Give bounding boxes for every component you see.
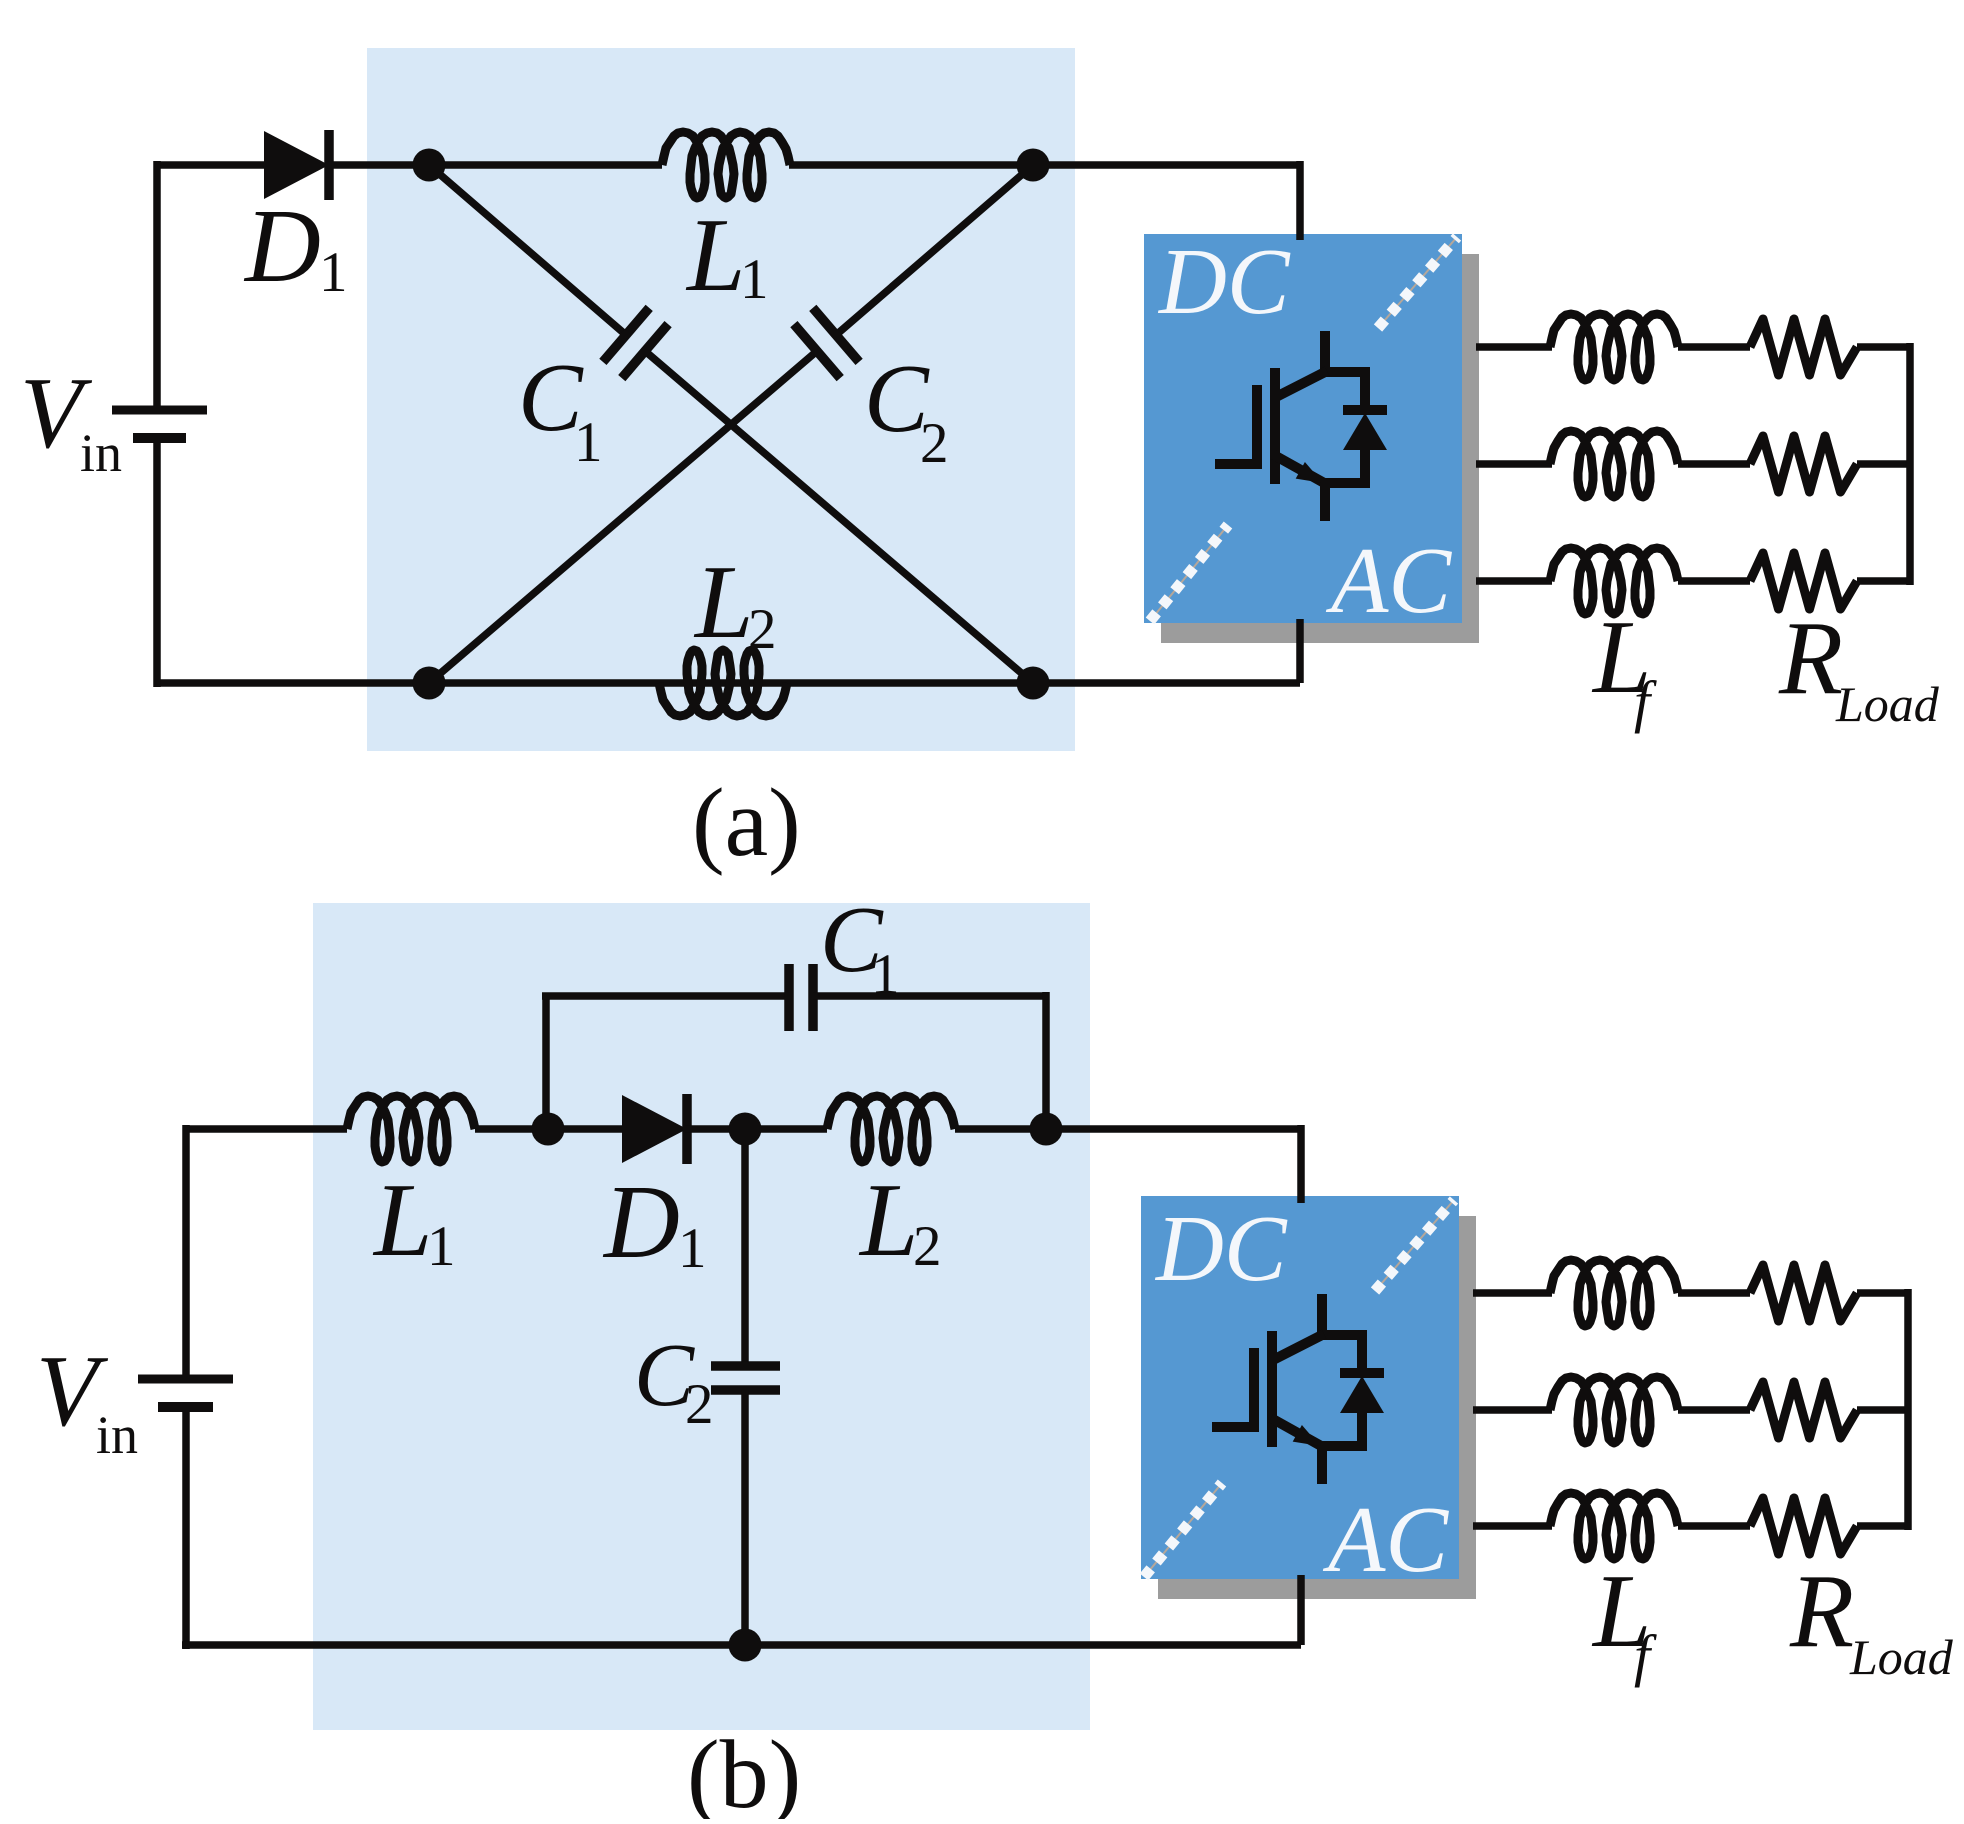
wire: L1 to diode (b) <box>475 1125 626 1133</box>
wire: C2 branch lower (b) <box>741 1390 749 1645</box>
inductor L1 (b) <box>347 1096 475 1162</box>
load resistor RLoad middle phase (a) <box>1750 436 1857 492</box>
node H junction dot (b) <box>729 1629 762 1662</box>
svg-text:DC: DC <box>1157 230 1291 334</box>
svg-text:L: L <box>693 543 753 660</box>
svg-text:(a): (a) <box>692 769 801 877</box>
wire: left rail lower (a) <box>153 442 161 687</box>
dashed corner line top-right (b) <box>1375 1200 1454 1291</box>
wire: middle phase line (a) <box>1476 460 1552 468</box>
wire: top rail (b) Vin to L1 <box>186 1125 347 1133</box>
capacitor C2 plates (a) <box>813 308 859 362</box>
wire: left rail upper (b) <box>182 1125 190 1375</box>
wire: C2 branch upper (b) <box>741 1129 749 1366</box>
node C junction dot (a) <box>413 667 446 700</box>
svg-text:(b): (b) <box>687 1721 801 1819</box>
inductor L2 (b) <box>827 1096 955 1162</box>
load resistor RLoad middle phase (b) <box>1750 1382 1857 1438</box>
svg-text:DC: DC <box>1154 1197 1288 1301</box>
wire: bottom phase inductor to resistor (b) <box>1678 1522 1750 1530</box>
svg-text:2: 2 <box>920 412 949 475</box>
wire: bottom phase line (b) <box>1473 1522 1552 1530</box>
filter inductor Lf bottom phase (b) <box>1550 1493 1678 1559</box>
filter inductor Lf bottom phase (a) <box>1550 548 1678 614</box>
wire: bottom phase inductor to resistor (a) <box>1678 577 1750 585</box>
svg-text:L: L <box>372 1161 432 1278</box>
filter inductor Lf top phase (a) <box>1550 314 1678 380</box>
inductor L1 (a) <box>662 132 790 198</box>
svg-text:R: R <box>1789 1552 1854 1669</box>
wire: diode to node A (a) <box>327 161 662 169</box>
wire: diode to L2 (b) <box>685 1125 827 1133</box>
svg-text:1: 1 <box>427 1215 456 1278</box>
node A junction dot (a) <box>413 149 446 182</box>
wire: left rail lower (b) <box>182 1411 190 1649</box>
dashed corner line top-right (a) <box>1378 237 1457 328</box>
wire: inverter bottom drop (b) <box>1297 1575 1305 1645</box>
load resistor RLoad top phase (a) <box>1750 319 1857 375</box>
wire: top phase inductor to resistor (a) <box>1678 343 1750 351</box>
wire: middle phase line (b) <box>1473 1406 1552 1414</box>
wire: right load bus (b) <box>1904 1289 1912 1530</box>
wire: middle phase resistor to bus (a) <box>1857 460 1913 468</box>
filter inductor Lf middle phase (b) <box>1550 1377 1678 1443</box>
wire: right drop into inverter top (a) <box>1296 161 1304 240</box>
svg-text:Load: Load <box>1849 1629 1954 1685</box>
capacitor C1 plates (b) <box>784 964 794 1031</box>
voltage source Vin (a) short plate <box>133 433 186 443</box>
wire: middle phase resistor to bus (b) <box>1857 1406 1911 1414</box>
wire: C1 top rail left (b) <box>542 992 789 1000</box>
dashed corner line bottom-left (b) <box>1144 1483 1222 1577</box>
voltage source Vin (a) long plate <box>112 406 207 415</box>
wire: inverter bottom drop (a) <box>1296 619 1304 683</box>
impedance-network highlight panel (b) <box>313 903 1090 1730</box>
wire: bottom phase resistor to bus (b) <box>1857 1522 1911 1530</box>
wire: bottom rail (b) <box>182 1641 1301 1649</box>
filter inductor Lf middle phase (a) <box>1550 431 1678 497</box>
wire: bottom rail (a) <box>157 679 1300 687</box>
wire: C1 branch left riser (b) <box>542 996 550 1129</box>
svg-text:Load: Load <box>1835 676 1940 732</box>
IGBT with anti-parallel diode inside inverter (a) <box>1215 331 1387 521</box>
inverter block U2 DC/AC (b) <box>1141 1196 1459 1579</box>
wire: top phase line (b) <box>1473 1289 1552 1297</box>
svg-text:R: R <box>1778 599 1843 716</box>
node D junction dot (a) <box>1017 667 1050 700</box>
svg-text:1: 1 <box>574 411 603 474</box>
wire: right load bus (a) <box>1906 343 1914 585</box>
wire: C1 branch right riser (b) <box>1042 992 1050 1129</box>
node G junction dot (b) <box>1030 1113 1063 1146</box>
inductor L2 (a) <box>659 650 787 716</box>
svg-text:AC: AC <box>1322 1488 1449 1592</box>
wire: drop into inverter top (b) <box>1297 1125 1305 1203</box>
capacitor C1 plates (a) <box>603 308 649 362</box>
wire: L1 to node B and right to inverter (a) <box>789 161 1300 169</box>
impedance-network highlight panel (a) <box>367 48 1075 751</box>
inverter block U1 DC/AC (a) <box>1144 234 1462 623</box>
diagonal wire node A to node D with capacitor C1 gap (a) <box>429 165 626 335</box>
filter inductor Lf top phase (b) <box>1550 1260 1678 1326</box>
svg-text:L: L <box>685 196 745 313</box>
node E junction dot (b) <box>532 1113 565 1146</box>
wire: L2 to inverter (b) <box>955 1125 1301 1133</box>
node F junction dot (b) <box>729 1113 762 1146</box>
svg-text:1: 1 <box>319 241 348 304</box>
inverter block shadow (a) <box>1161 254 1479 643</box>
wire: top phase resistor to bus (a) <box>1857 343 1913 351</box>
diagonal wire node B to node C with capacitor C2 gap (a) <box>836 165 1033 335</box>
svg-text:AC: AC <box>1325 529 1452 633</box>
svg-text:D: D <box>602 1163 680 1280</box>
wire: middle phase inductor to resistor (a) <box>1678 460 1750 468</box>
wire: C1 top rail right (b) <box>813 992 1046 1000</box>
wire: top phase resistor to bus (b) <box>1857 1289 1911 1297</box>
node B junction dot (a) <box>1017 149 1050 182</box>
wire: bottom phase line (a) <box>1476 577 1552 585</box>
svg-text:1: 1 <box>740 248 769 311</box>
diode D1 (a) <box>264 131 329 199</box>
diode D1 (b) <box>622 1095 687 1163</box>
inverter block shadow (b) <box>1158 1216 1476 1599</box>
wire: top phase inductor to resistor (b) <box>1678 1289 1750 1297</box>
wire: top phase line (a) <box>1476 343 1552 351</box>
dashed corner line bottom-left (a) <box>1150 525 1228 621</box>
svg-text:1: 1 <box>678 1217 707 1280</box>
svg-text:L: L <box>858 1161 918 1278</box>
wire: left rail upper (a) <box>153 161 161 406</box>
svg-text:in: in <box>80 423 122 483</box>
capacitor C2 plates (b) <box>711 1361 780 1371</box>
svg-text:D: D <box>243 187 321 304</box>
load resistor RLoad bottom phase (a) <box>1750 553 1857 609</box>
wire: bottom phase resistor to bus (a) <box>1857 577 1913 585</box>
wire: top rail (a) from Vin to diode <box>157 161 268 169</box>
load resistor RLoad top phase (b) <box>1750 1265 1857 1321</box>
voltage source Vin (b) short plate <box>158 1402 213 1412</box>
IGBT with anti-parallel diode inside inverter (b) <box>1212 1294 1384 1484</box>
load resistor RLoad bottom phase (b) <box>1750 1498 1857 1554</box>
svg-text:2: 2 <box>748 598 777 661</box>
svg-text:in: in <box>96 1405 138 1465</box>
svg-text:2: 2 <box>685 1373 714 1436</box>
voltage source Vin (b) long plate <box>138 1375 233 1384</box>
svg-text:2: 2 <box>913 1215 942 1278</box>
wire: middle phase inductor to resistor (b) <box>1678 1406 1750 1414</box>
